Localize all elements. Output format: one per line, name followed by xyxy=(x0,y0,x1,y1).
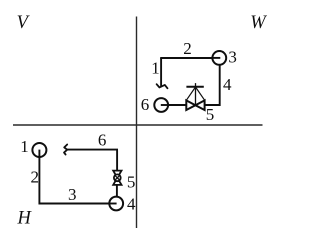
axis horizontal xyxy=(13,124,263,126)
wire 3 (horizontal to circle 4) xyxy=(39,203,117,205)
wire 2 (horizontal top) xyxy=(160,57,220,59)
node circle 4 xyxy=(109,197,123,211)
wire 6 (horizontal) xyxy=(67,149,118,151)
stub of wire 2 into circle 3 xyxy=(212,57,220,59)
node circle 1 xyxy=(32,143,46,157)
wire 4 (vertical from circle 3 down, then to valve) xyxy=(206,65,220,105)
stub of wire 3 into circle 4 xyxy=(109,203,116,205)
wire from circle 6 to valve xyxy=(161,104,186,106)
svg-text:4: 4 xyxy=(223,75,232,94)
svg-text:H: H xyxy=(17,209,33,229)
svg-text:1: 1 xyxy=(151,59,160,78)
wire 1 (vertical, top-left) xyxy=(160,58,162,86)
svg-text:5: 5 xyxy=(206,105,215,124)
valve (bowtie) in W quadrant xyxy=(186,100,204,110)
node circle 6 xyxy=(154,98,168,112)
svg-text:6: 6 xyxy=(98,131,107,150)
valve handle bar xyxy=(186,86,203,88)
svg-text:2: 2 xyxy=(183,39,192,58)
break squiggle at end of wire 1 xyxy=(157,84,168,88)
svg-text:3: 3 xyxy=(228,48,237,67)
stub of wire into circle 6 xyxy=(161,104,168,106)
svg-text:4: 4 xyxy=(127,195,136,214)
valve 5 (hourglass with circled cross) xyxy=(113,171,121,185)
svg-text:2: 2 xyxy=(30,168,39,187)
valve bonnet diagonal left xyxy=(186,87,195,100)
wire from circle 4 up to valve 5 xyxy=(116,185,118,197)
axis vertical xyxy=(136,17,138,229)
svg-text:3: 3 xyxy=(68,185,77,204)
svg-text:W: W xyxy=(250,13,267,33)
break squiggle at end of wire 6 xyxy=(64,145,67,155)
node circle 3 xyxy=(212,51,226,65)
wire 2 (vertical from circle 1 down) xyxy=(38,150,40,205)
svg-text:6: 6 xyxy=(141,95,150,114)
wire from valve 5 up to corner xyxy=(116,151,118,171)
svg-text:5: 5 xyxy=(127,173,136,192)
valve stem xyxy=(195,83,197,105)
svg-text:1: 1 xyxy=(20,137,29,156)
valve bonnet diagonal right xyxy=(196,87,205,100)
